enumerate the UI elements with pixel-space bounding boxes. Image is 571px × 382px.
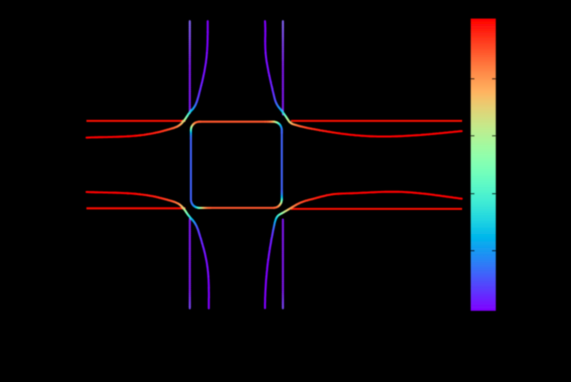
hybridized branch bottom-right — [265, 276, 266, 308]
hybridized branch top-left — [207, 21, 209, 32]
hybridized branch bottom-left — [208, 297, 210, 308]
colorbar tick pair 3 — [471, 193, 475, 194]
colorbar tick pair 2 — [471, 135, 475, 136]
uncoupled vertical dispersion line right, bottom segment — [282, 220, 284, 222]
uncoupled horizontal dispersion line top, left segment — [86, 120, 185, 122]
uncoupled vertical dispersion line right, top segment — [282, 21, 284, 23]
central closed orbit (rounded square) — [199, 121, 200, 123]
colorbar tick pair 4 — [471, 250, 475, 251]
hybridized branch top-right — [264, 21, 266, 31]
uncoupled horizontal dispersion line bottom, right segment — [291, 208, 462, 210]
uncoupled horizontal dispersion line top, right segment — [291, 120, 462, 122]
colorbar tick pair 1 — [471, 78, 475, 79]
uncoupled vertical dispersion line left, top segment — [189, 21, 191, 23]
uncoupled horizontal dispersion line bottom, left segment — [86, 207, 185, 209]
uncoupled vertical dispersion line left, bottom segment — [189, 219, 191, 221]
